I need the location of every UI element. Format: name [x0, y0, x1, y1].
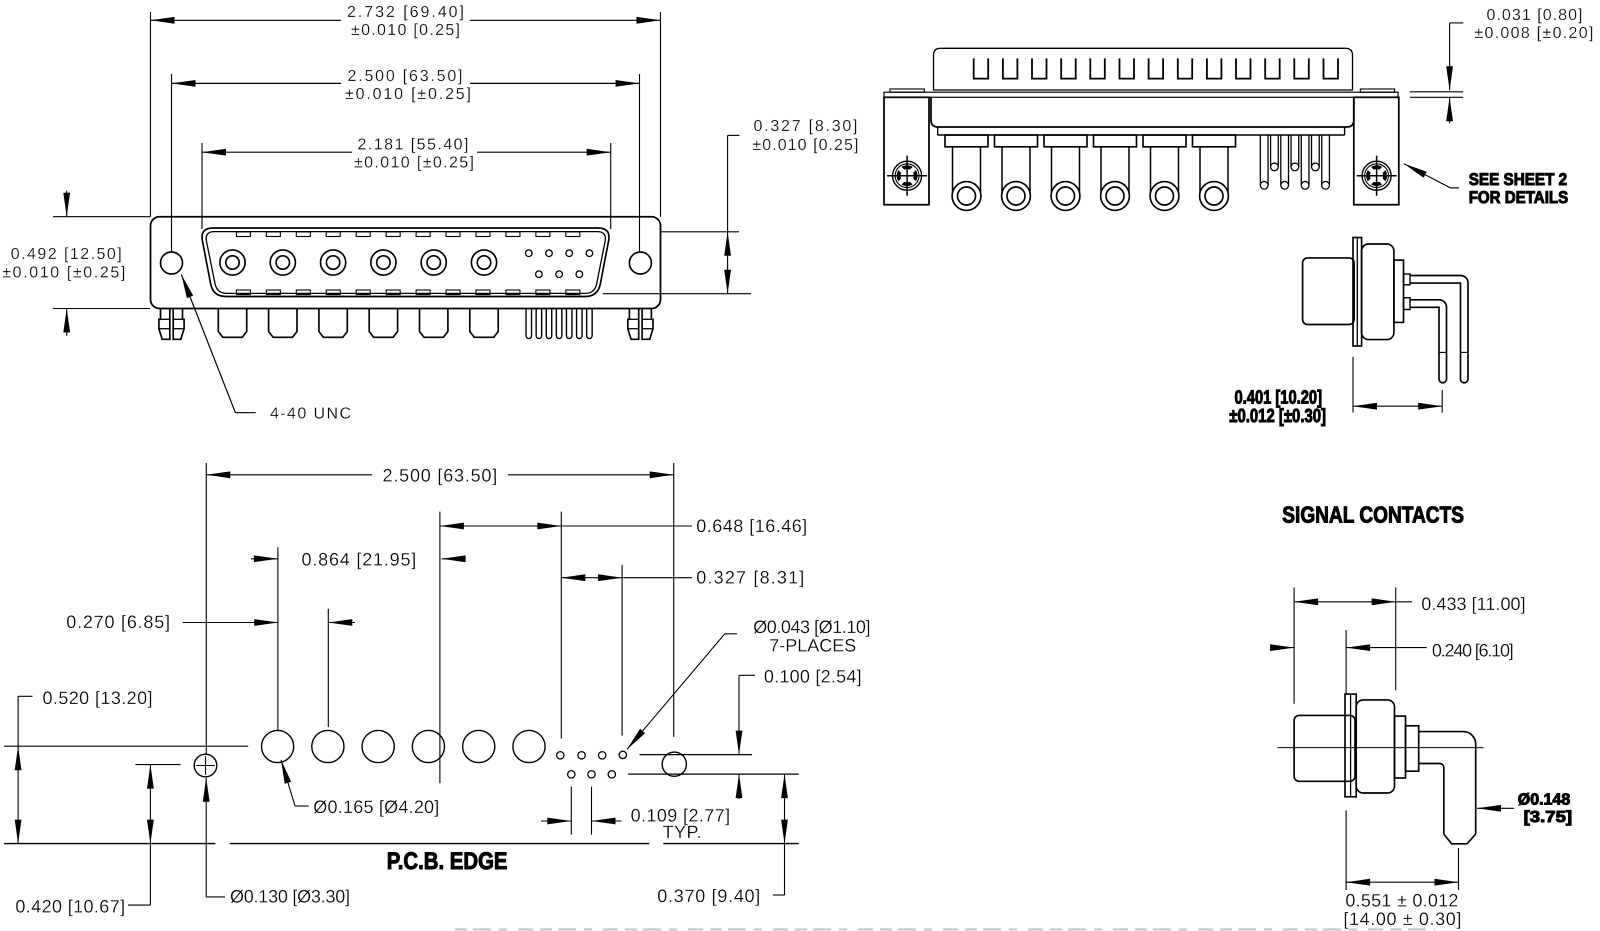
svg-text:Ø0.165 [Ø4.20]: Ø0.165 [Ø4.20] — [313, 797, 439, 817]
svg-text:0.648 [16.46]: 0.648 [16.46] — [696, 516, 807, 536]
svg-text:SIGNAL CONTACTS: SIGNAL CONTACTS — [1282, 502, 1464, 528]
svg-text:±0.010 [0.25]: ±0.010 [0.25] — [752, 137, 858, 154]
svg-text:Ø0.148: Ø0.148 — [1518, 791, 1571, 808]
svg-text:0.551 ± 0.012: 0.551 ± 0.012 — [1345, 891, 1458, 911]
svg-text:0.864 [21.95]: 0.864 [21.95] — [302, 549, 417, 569]
svg-text:0.420 [10.67]: 0.420 [10.67] — [15, 896, 125, 916]
svg-text:±0.012 [±0.30]: ±0.012 [±0.30] — [1229, 406, 1326, 427]
svg-text:±0.010 [±0.25]: ±0.010 [±0.25] — [345, 86, 471, 103]
svg-text:±0.010 [±0.25]: ±0.010 [±0.25] — [354, 155, 474, 172]
svg-text:0.031 [0.80]: 0.031 [0.80] — [1487, 7, 1583, 24]
svg-text:±0.010 [±0.25]: ±0.010 [±0.25] — [2, 265, 125, 282]
svg-text:2.500 [63.50]: 2.500 [63.50] — [348, 68, 463, 85]
svg-text:2.732 [69.40]: 2.732 [69.40] — [347, 4, 464, 21]
svg-text:4-40 UNC: 4-40 UNC — [270, 406, 351, 423]
svg-text:Ø0.130 [Ø3.30]: Ø0.130 [Ø3.30] — [230, 886, 350, 906]
svg-text:SEE SHEET 2: SEE SHEET 2 — [1469, 170, 1568, 189]
svg-text:0.433 [11.00]: 0.433 [11.00] — [1421, 594, 1525, 614]
svg-text:FOR DETAILS: FOR DETAILS — [1469, 188, 1569, 207]
svg-text:±0.010 [0.25]: ±0.010 [0.25] — [351, 22, 460, 39]
svg-text:Ø0.043 [Ø1.10]: Ø0.043 [Ø1.10] — [753, 617, 870, 637]
svg-text:[3.75]: [3.75] — [1524, 809, 1573, 826]
svg-text:2.181 [55.40]: 2.181 [55.40] — [358, 137, 469, 154]
svg-text:0.370 [9.40]: 0.370 [9.40] — [657, 886, 760, 906]
svg-text:0.520 [13.20]: 0.520 [13.20] — [43, 688, 153, 708]
svg-text:7-PLACES: 7-PLACES — [769, 635, 856, 655]
svg-text:0.270 [6.85]: 0.270 [6.85] — [66, 612, 170, 632]
svg-text:[14.00 ± 0.30]: [14.00 ± 0.30] — [1343, 909, 1461, 929]
svg-text:TYP.: TYP. — [663, 822, 702, 842]
svg-text:P.C.B. EDGE: P.C.B. EDGE — [387, 848, 508, 875]
svg-text:0.492 [12.50]: 0.492 [12.50] — [11, 246, 122, 263]
svg-text:2.500 [63.50]: 2.500 [63.50] — [383, 465, 498, 485]
svg-text:0.100 [2.54]: 0.100 [2.54] — [764, 667, 862, 687]
svg-text:±0.008 [±0.20]: ±0.008 [±0.20] — [1474, 25, 1593, 42]
svg-text:0.240 [6.10]: 0.240 [6.10] — [1432, 641, 1514, 661]
